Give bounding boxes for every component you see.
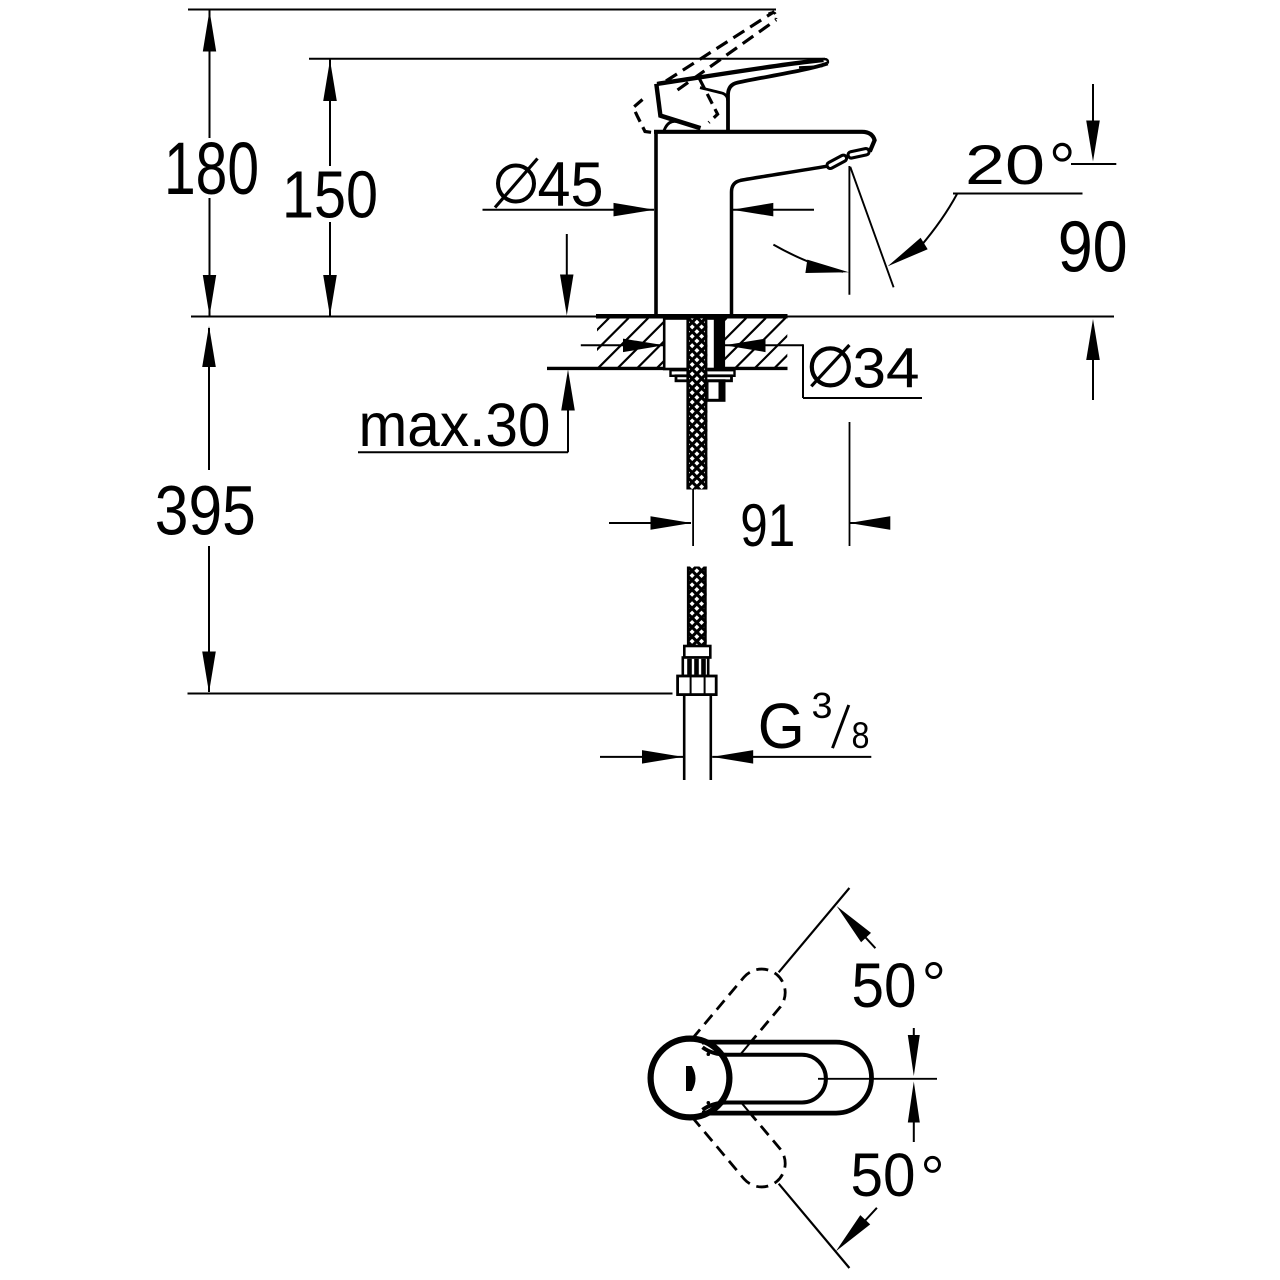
svg-text:45: 45 xyxy=(538,150,604,220)
svg-text:50: 50 xyxy=(852,951,917,1021)
svg-text:8: 8 xyxy=(852,715,870,756)
svg-text:max.30: max.30 xyxy=(359,391,551,460)
svg-text:150: 150 xyxy=(282,158,378,233)
svg-text:50: 50 xyxy=(851,1141,916,1209)
svg-text:34: 34 xyxy=(853,337,920,401)
svg-text:91: 91 xyxy=(740,492,795,559)
svg-text:180: 180 xyxy=(164,127,259,210)
svg-text:90: 90 xyxy=(1058,207,1128,287)
svg-text:20: 20 xyxy=(965,133,1045,196)
svg-text:395: 395 xyxy=(155,471,256,549)
svg-text:3: 3 xyxy=(812,685,833,726)
svg-text:G: G xyxy=(758,690,805,762)
